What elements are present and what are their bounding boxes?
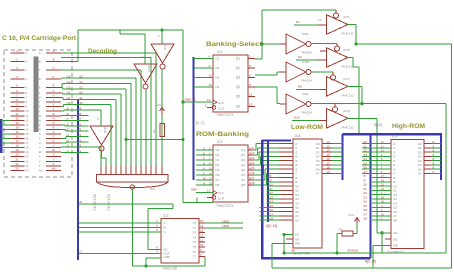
wire bank address Q3 to ROM bbox=[254, 159, 259, 161]
svg-text:IC2: IC2 bbox=[217, 140, 223, 144]
svg-text:AA: AA bbox=[39, 168, 43, 172]
IC9 address pin A6 bbox=[372, 168, 391, 170]
IC2 input pin D8 bbox=[196, 184, 213, 186]
IC8 address pin A6 bbox=[279, 168, 293, 170]
IC1 output pin Q5 bbox=[248, 96, 255, 98]
svg-text:74HC04: 74HC04 bbox=[301, 79, 312, 83]
gate IC7A 74HC132 bbox=[327, 15, 349, 35]
IC8 address pin A1 bbox=[279, 147, 293, 149]
wire resistor to CLK chain bbox=[126, 139, 183, 141]
svg-text:12: 12 bbox=[200, 234, 204, 238]
IC2 CLK pin bbox=[196, 192, 213, 194]
svg-text:Y: Y bbox=[53, 157, 55, 161]
IC8 address pin A14 bbox=[267, 202, 280, 204]
IC9 data pin D5 bbox=[424, 164, 431, 166]
svg-text:IC6A: IC6A bbox=[302, 32, 309, 36]
svg-text:17: 17 bbox=[26, 141, 30, 145]
svg-text:11: 11 bbox=[26, 114, 29, 118]
connector X1 pin 13 bbox=[11, 124, 25, 126]
gate IC7B top input stub bbox=[336, 44, 338, 46]
IC9 data pin D0 bbox=[424, 143, 431, 145]
svg-text:18: 18 bbox=[15, 144, 19, 148]
connector X1 body bar bbox=[34, 57, 38, 132]
IC9 address pin A13 bbox=[372, 198, 391, 200]
IC2 input pin D4 bbox=[196, 164, 213, 166]
svg-text:Y3: Y3 bbox=[192, 235, 196, 239]
wire address net /4 from port bbox=[61, 138, 66, 140]
svg-text:C: C bbox=[164, 230, 167, 234]
svg-text:IC6B: IC6B bbox=[302, 60, 309, 64]
NAND IC5 output bubble bbox=[130, 185, 134, 189]
svg-text:5: 5 bbox=[97, 117, 99, 121]
svg-text:8: 8 bbox=[16, 98, 18, 102]
svg-text:/17: /17 bbox=[251, 176, 255, 180]
connector X1 pin N bbox=[46, 119, 61, 121]
svg-text:CLR: CLR bbox=[218, 107, 225, 111]
svg-text:N: N bbox=[203, 181, 205, 185]
connector X1 pin F bbox=[46, 92, 61, 94]
svg-text:K: K bbox=[53, 103, 55, 107]
svg-text:IC7A: IC7A bbox=[343, 15, 350, 19]
svg-text:14: 14 bbox=[200, 224, 204, 228]
svg-text:D4: D4 bbox=[216, 85, 220, 89]
connector X1 pin D bbox=[46, 78, 61, 80]
wire Q3 to IC6B input bbox=[255, 74, 277, 76]
svg-text:G2B: G2B bbox=[164, 255, 170, 259]
wire port row to NAND input bbox=[61, 69, 141, 71]
connector X1 pin 4 bbox=[11, 78, 25, 80]
svg-text:8[15]: 8[15] bbox=[374, 123, 382, 127]
connector X1 pin 19 bbox=[11, 151, 25, 153]
svg-text:T: T bbox=[39, 137, 41, 141]
svg-text:WE: WE bbox=[295, 242, 300, 246]
svg-text:OE: OE bbox=[393, 237, 397, 241]
svg-text:74HC138: 74HC138 bbox=[162, 267, 177, 271]
IC8 data pin D2 bbox=[322, 151, 332, 153]
svg-text:4: 4 bbox=[26, 77, 28, 81]
svg-text:N: N bbox=[52, 116, 54, 120]
svg-text:1: 1 bbox=[26, 51, 28, 55]
IC8 address pin A10 bbox=[267, 185, 280, 187]
svg-text:/18: /18 bbox=[251, 181, 255, 185]
connector X1 pin 16 bbox=[11, 138, 25, 140]
svg-text:W: W bbox=[52, 148, 55, 152]
svg-text:E: E bbox=[39, 85, 41, 89]
svg-text:6: 6 bbox=[249, 74, 251, 78]
svg-text:D6: D6 bbox=[216, 173, 220, 177]
connector X1 pin C bbox=[46, 69, 61, 71]
wire bank address Q8 to ROM bbox=[254, 184, 267, 186]
IC8 data pin D0 bbox=[322, 143, 332, 145]
svg-text:A[0..15]: A[0..15] bbox=[365, 260, 376, 264]
connector X1 pin Z bbox=[46, 165, 61, 167]
inverter IC6B output wire bbox=[311, 71, 333, 73]
junction resistor node bbox=[181, 138, 184, 141]
svg-text:3: 3 bbox=[26, 68, 28, 72]
gate IC7C input wire D8 bbox=[296, 88, 320, 90]
svg-text:Q8: Q8 bbox=[241, 183, 245, 187]
IC9 address pin A12 bbox=[372, 194, 391, 196]
svg-text:Q1: Q1 bbox=[236, 56, 240, 60]
connector X1 pin X bbox=[46, 156, 61, 158]
svg-text:11: 11 bbox=[207, 189, 210, 193]
IC2 input pin D2 bbox=[196, 154, 213, 156]
IC8 address pin A7 bbox=[279, 172, 293, 174]
IC2 input pin D7 bbox=[196, 179, 213, 181]
svg-text:D7: D7 bbox=[316, 172, 320, 176]
svg-text:4: 4 bbox=[156, 250, 158, 254]
bus A second leg bbox=[267, 140, 269, 222]
svg-text:74HC132: 74HC132 bbox=[341, 125, 354, 129]
wire bank address Q6 to ROM bbox=[254, 174, 264, 176]
svg-text:IC4A: IC4A bbox=[163, 43, 167, 50]
bus A vertical left leg at Low-ROM bbox=[261, 140, 264, 257]
svg-text:R1: R1 bbox=[152, 129, 156, 133]
wire from left edge bus to port pin bbox=[1, 142, 11, 144]
svg-text:B: B bbox=[164, 226, 166, 230]
svg-text:IC5: IC5 bbox=[150, 187, 155, 191]
gate IC7D top input stub bbox=[334, 104, 336, 107]
wire address net /2 from port bbox=[61, 146, 89, 148]
svg-text:Q4: Q4 bbox=[241, 163, 245, 167]
svg-text:D: D bbox=[52, 75, 54, 79]
ROM IC8 Am29F040 body bbox=[293, 139, 322, 248]
gate IC7B 74HC132 bbox=[327, 48, 349, 68]
wire from left edge bus to port pin bbox=[1, 124, 11, 126]
svg-text:/12: /12 bbox=[251, 151, 255, 155]
wire vertical to CLK chain bbox=[182, 30, 184, 203]
IC8 address pin A5 bbox=[279, 164, 293, 166]
svg-text:X: X bbox=[39, 155, 41, 159]
IC1 output pin Q2 bbox=[248, 67, 255, 69]
gate IC7A output wire bbox=[348, 24, 356, 26]
svg-text:/11: /11 bbox=[79, 96, 83, 100]
svg-text:15: 15 bbox=[26, 132, 30, 136]
IC8 address pin A13 bbox=[267, 198, 280, 200]
IC9 OE pin bbox=[385, 238, 391, 240]
svg-text:5: 5 bbox=[16, 83, 18, 87]
connector X1 pin T bbox=[46, 138, 61, 140]
svg-text:IC7C: IC7C bbox=[343, 77, 351, 81]
IC9 address pin A18 bbox=[372, 219, 391, 221]
IC9 address pin A11 bbox=[372, 189, 391, 191]
wire from left edge bus to port pin bbox=[1, 133, 11, 135]
svg-text:11: 11 bbox=[16, 112, 19, 116]
svg-text:SBK: SBK bbox=[191, 188, 197, 192]
svg-text:Q6: Q6 bbox=[241, 173, 245, 177]
svg-text:V: V bbox=[39, 146, 41, 150]
svg-text:13: 13 bbox=[26, 123, 30, 127]
IC9 address pin A5 bbox=[372, 164, 391, 166]
svg-text:K: K bbox=[39, 105, 41, 109]
svg-text:Q5: Q5 bbox=[241, 168, 245, 172]
wire address net /1 from port bbox=[61, 151, 89, 153]
svg-text:/10: /10 bbox=[67, 101, 71, 105]
svg-text:74HC04: 74HC04 bbox=[301, 51, 312, 55]
svg-text:R1: R1 bbox=[339, 228, 343, 232]
connector X1 pin U bbox=[46, 142, 61, 144]
gate IC7A top input stub bbox=[335, 10, 337, 13]
svg-text:Q3: Q3 bbox=[241, 158, 245, 162]
svg-text:74HC133: 74HC133 bbox=[92, 193, 97, 211]
IC9 CE pin bbox=[380, 231, 383, 234]
connector X1 pin 18 bbox=[11, 147, 25, 149]
svg-text:H: H bbox=[39, 96, 41, 100]
wire bank address Q1 to ROM bbox=[254, 149, 256, 151]
inverter IC4C bbox=[90, 126, 113, 145]
svg-text:Y5: Y5 bbox=[192, 245, 196, 249]
svg-text:S: S bbox=[39, 132, 41, 136]
wire from left edge bus to port pin bbox=[1, 147, 11, 149]
svg-text:M: M bbox=[39, 114, 42, 118]
inverter IC4C input wire bbox=[89, 109, 102, 111]
connector X1 pin 21 bbox=[11, 160, 25, 162]
svg-text:6: 6 bbox=[16, 89, 18, 93]
svg-text:IC7D: IC7D bbox=[343, 109, 351, 113]
wire WE net line B bbox=[272, 267, 452, 269]
svg-text:D1: D1 bbox=[296, 20, 300, 24]
connector X1 pin 1 bbox=[11, 52, 25, 54]
svg-text:/11: /11 bbox=[67, 96, 71, 100]
svg-text:A: A bbox=[39, 51, 41, 55]
svg-text:11: 11 bbox=[207, 98, 210, 102]
inverter IC6A 74HC04 bbox=[286, 34, 306, 54]
svg-text:High-ROM: High-ROM bbox=[392, 123, 425, 130]
svg-text:/11: /11 bbox=[251, 146, 255, 150]
svg-text:D3: D3 bbox=[216, 76, 220, 80]
wire port to NAND decoder input bbox=[89, 83, 132, 85]
IC3 enable pin G2B wire loop to Y7 bbox=[146, 257, 161, 259]
svg-text:21: 21 bbox=[15, 157, 19, 161]
wire address net /3 from port bbox=[61, 142, 66, 144]
svg-text:IC8: IC8 bbox=[295, 134, 301, 138]
IC3 input pin C bbox=[79, 231, 161, 233]
IC8 address pin A8 bbox=[267, 177, 280, 179]
svg-text:/16: /16 bbox=[251, 171, 255, 175]
NAND gate IC5 74HC133 body bbox=[97, 175, 169, 183]
svg-text:R: R bbox=[52, 125, 54, 129]
svg-text:Z: Z bbox=[39, 164, 41, 168]
IC9 data pin D4 bbox=[424, 160, 431, 162]
connector X1 pin 20 bbox=[11, 156, 25, 158]
svg-text:13: 13 bbox=[209, 74, 213, 78]
svg-text:2: 2 bbox=[16, 58, 18, 62]
svg-text:ROM-Banking: ROM-Banking bbox=[196, 131, 249, 138]
IC8 address pin A11 bbox=[267, 189, 280, 191]
svg-text:10: 10 bbox=[200, 243, 204, 247]
inverter IC6B 74HC04 bbox=[286, 62, 306, 82]
svg-text:/18: /18 bbox=[269, 217, 273, 221]
svg-text:Low-ROM: Low-ROM bbox=[291, 124, 323, 131]
resistor R1 bbox=[160, 124, 165, 137]
svg-text:SB[0..2]: SB[0..2] bbox=[185, 98, 196, 102]
svg-text:1: 1 bbox=[158, 34, 160, 38]
connector X1 pin A bbox=[46, 52, 61, 54]
svg-text:15: 15 bbox=[15, 130, 19, 134]
svg-text:/14: /14 bbox=[67, 80, 71, 84]
svg-text:P: P bbox=[39, 123, 41, 127]
svg-text:Y2: Y2 bbox=[192, 231, 196, 235]
svg-text:/BK: /BK bbox=[291, 249, 296, 253]
IC1 output pin Q3 bbox=[248, 77, 255, 79]
gate IC7C top input stub bbox=[332, 72, 334, 75]
wire R1 node down to NAND bbox=[161, 140, 163, 166]
gate IC7A input wire D1 bbox=[294, 24, 318, 26]
svg-text:OE: OE bbox=[295, 237, 299, 241]
IC9 address pin A10 bbox=[372, 185, 391, 187]
IC9 address pin A9 bbox=[372, 181, 391, 183]
svg-text:21: 21 bbox=[26, 159, 30, 163]
IC9 data pin D6 bbox=[424, 168, 431, 170]
svg-text:20: 20 bbox=[26, 155, 30, 159]
svg-text:U: U bbox=[39, 141, 41, 145]
wire port to NAND decoder input bbox=[89, 98, 117, 100]
svg-text:15: 15 bbox=[249, 102, 253, 106]
svg-text:T: T bbox=[53, 135, 55, 139]
IC8 address pin A2 bbox=[279, 151, 293, 153]
svg-text:Y4: Y4 bbox=[192, 240, 196, 244]
IC8 address pin A17 bbox=[260, 215, 280, 217]
svg-text:B: B bbox=[39, 60, 41, 64]
svg-text:13: 13 bbox=[318, 18, 322, 22]
IC3 output pins Y0-Y7 bbox=[199, 222, 205, 224]
svg-text:C 16, P/4 Cartridge-Port: C 16, P/4 Cartridge-Port bbox=[2, 35, 77, 42]
IC9 address pin A15 bbox=[372, 206, 391, 208]
wire Q4 to IC6C input bbox=[255, 86, 277, 88]
svg-text:14: 14 bbox=[15, 125, 19, 129]
svg-text:19: 19 bbox=[327, 170, 331, 174]
svg-text:5: 5 bbox=[249, 64, 251, 68]
svg-text:9: 9 bbox=[16, 103, 18, 107]
svg-text:A: A bbox=[53, 49, 55, 53]
IC9 address pin A17 bbox=[372, 215, 391, 217]
svg-text:2: 2 bbox=[26, 60, 28, 64]
svg-text:IC6C: IC6C bbox=[302, 92, 310, 96]
svg-text:10: 10 bbox=[15, 107, 19, 111]
wire bank address Q5 to ROM bbox=[254, 169, 262, 171]
bus SB segment near IC1 bbox=[193, 57, 195, 180]
svg-text:1: 1 bbox=[16, 49, 18, 53]
svg-text:12: 12 bbox=[15, 116, 19, 120]
svg-text:Q6: Q6 bbox=[236, 104, 240, 108]
svg-text:Am29F040: Am29F040 bbox=[387, 251, 404, 255]
svg-text:3: 3 bbox=[209, 64, 211, 68]
svg-text:Q7: Q7 bbox=[241, 178, 245, 182]
svg-text:/14: /14 bbox=[251, 161, 255, 165]
IC3 enable pin G2A bbox=[79, 253, 161, 255]
bus D left leg bbox=[342, 134, 344, 180]
svg-text:CE: CE bbox=[393, 231, 397, 235]
gate IC7D input wire D18 bbox=[292, 120, 320, 122]
svg-text:/15: /15 bbox=[251, 166, 255, 170]
IC9 address pin A2 bbox=[372, 151, 391, 153]
svg-text:CLK: CLK bbox=[218, 101, 224, 105]
svg-text:D2: D2 bbox=[216, 153, 220, 157]
svg-text:D1: D1 bbox=[216, 56, 220, 60]
IC9 data pin D7 bbox=[424, 172, 431, 174]
IC8 address pin A9 bbox=[267, 181, 280, 183]
inverter IC4B input wire bbox=[120, 33, 145, 35]
svg-text:22: 22 bbox=[15, 162, 19, 166]
IC9 address pin A7 bbox=[372, 172, 391, 174]
connector X1 pin R bbox=[46, 128, 61, 130]
resistor R2 bbox=[342, 231, 353, 236]
svg-text:A: A bbox=[164, 221, 166, 225]
inverter IC6A output wire bbox=[311, 43, 337, 45]
svg-text:1: 1 bbox=[205, 104, 207, 108]
wire address net /10 from port bbox=[61, 106, 64, 108]
connector X1 pin J bbox=[46, 101, 61, 103]
bus A[0..15] left vertical bbox=[77, 99, 79, 260]
svg-text:VCC: VCC bbox=[348, 213, 355, 217]
IC1 CLK pin bbox=[183, 101, 213, 103]
wire address net /12 from port bbox=[61, 92, 63, 94]
svg-text:/0: /0 bbox=[80, 200, 83, 204]
IC8 address pin A18 bbox=[260, 219, 280, 221]
wire bank address Q4 to ROM bbox=[254, 164, 261, 166]
svg-text:10: 10 bbox=[26, 109, 30, 113]
wire bank address Q7 to ROM bbox=[254, 179, 265, 181]
VCC symbol above R2 bbox=[356, 218, 358, 223]
svg-text:Banking-Select: Banking-Select bbox=[206, 41, 263, 48]
IC9 data pin D1 bbox=[424, 147, 431, 149]
svg-text:/18: /18 bbox=[393, 218, 397, 222]
connector X1 pin V bbox=[46, 147, 61, 149]
svg-text:/15: /15 bbox=[67, 75, 71, 79]
wire resistor node to NAND input bbox=[125, 140, 127, 166]
svg-text:23: 23 bbox=[26, 168, 30, 172]
svg-text:IC9: IC9 bbox=[392, 135, 398, 139]
IC2 input pin D5 bbox=[196, 169, 213, 171]
inverter IC4C output wire to NAND bbox=[101, 151, 103, 158]
svg-text:R: R bbox=[39, 127, 41, 131]
svg-text:12: 12 bbox=[249, 93, 253, 97]
svg-text:74HC04: 74HC04 bbox=[301, 111, 312, 115]
wire from left edge bus to port pin bbox=[1, 119, 11, 121]
svg-text:N: N bbox=[39, 118, 41, 122]
svg-text:6: 6 bbox=[26, 91, 28, 95]
svg-text:H: H bbox=[203, 161, 205, 165]
svg-text:7: 7 bbox=[16, 94, 18, 98]
svg-text:D7: D7 bbox=[418, 172, 422, 176]
svg-text:D1: D1 bbox=[216, 148, 220, 152]
IC9 data pin D3 bbox=[424, 155, 431, 157]
VCC symbol above R1 bbox=[161, 109, 163, 115]
NAND IC5 input pins bbox=[100, 166, 102, 175]
svg-text:A[0..15]: A[0..15] bbox=[266, 224, 277, 228]
svg-text:23: 23 bbox=[15, 166, 19, 170]
gate IC7C output wire bbox=[348, 85, 362, 87]
inverter IC6C output wire bbox=[311, 103, 362, 105]
IC9 address pin A14 bbox=[372, 202, 391, 204]
bus A leg at High-ROM bbox=[370, 134, 372, 258]
svg-text:/12: /12 bbox=[67, 91, 71, 95]
IC9 address pin A16 bbox=[372, 211, 391, 213]
svg-text:Q4: Q4 bbox=[236, 85, 240, 89]
svg-text:15: 15 bbox=[200, 219, 204, 223]
svg-text:74HCT273: 74HCT273 bbox=[216, 204, 233, 208]
IC8 data pin D1 bbox=[322, 147, 332, 149]
svg-text:Q2: Q2 bbox=[241, 153, 245, 157]
wire port to NAND decoder input bbox=[89, 93, 122, 95]
IC8 address pin A3 bbox=[279, 155, 293, 157]
gate IC7B input wire D2 bbox=[296, 59, 318, 61]
connector X1 pin Y bbox=[46, 160, 61, 162]
svg-text:Y1: Y1 bbox=[192, 226, 196, 230]
svg-text:4: 4 bbox=[209, 54, 211, 58]
IC2 output pins bbox=[248, 149, 254, 151]
inverter IC6C 74HC04 bbox=[286, 94, 306, 114]
